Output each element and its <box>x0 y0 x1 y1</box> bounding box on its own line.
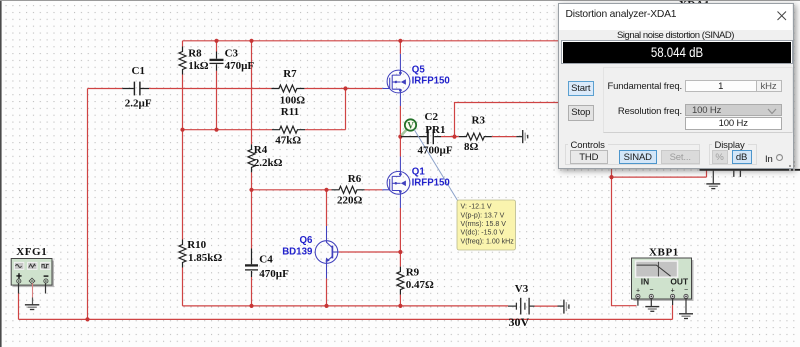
instrument XFG1 function generator <box>11 259 54 310</box>
svg-text:470µF: 470µF <box>225 60 255 72</box>
resistor R6 220ohm <box>332 186 365 193</box>
capacitor C4 470uF <box>245 249 258 278</box>
wire C2 right to R3 <box>441 136 459 138</box>
tooltip measurement box <box>457 200 516 250</box>
transistor Q5 IRFP150 (NMOS) <box>382 54 410 106</box>
svg-text:−: − <box>649 287 653 294</box>
svg-text:2.2µF: 2.2µF <box>125 98 152 110</box>
svg-text:8Ω: 8Ω <box>464 141 479 153</box>
svg-text:OUT: OUT <box>670 276 689 286</box>
svg-text:V3: V3 <box>515 283 529 295</box>
svg-text:C1: C1 <box>132 65 145 77</box>
wire R11 rail <box>183 129 346 131</box>
svg-text:V(dc): -15.0 V: V(dc): -15.0 V <box>461 230 505 237</box>
transistor Q6 BD139 (NPN) <box>315 226 339 279</box>
resistor R11 47kohm <box>272 126 305 133</box>
wire R6 row <box>252 189 383 191</box>
svg-text:R4: R4 <box>254 144 268 156</box>
svg-text:1kΩ: 1kΩ <box>188 60 209 72</box>
svg-text:IRFP150: IRFP150 <box>412 178 450 189</box>
svg-text:V(rms): 15.8 V: V(rms): 15.8 V <box>461 221 507 228</box>
svg-text:C2: C2 <box>425 111 439 123</box>
svg-text:0.47Ω: 0.47Ω <box>406 279 434 291</box>
wire left column x87 <box>87 89 89 320</box>
resistor R3 8ohm <box>459 133 492 140</box>
svg-text:2.2kΩ: 2.2kΩ <box>254 157 283 169</box>
wire R3 right to ground <box>492 136 517 138</box>
resistor R4 2.2kohm <box>248 144 255 172</box>
svg-text:IRFP150: IRFP150 <box>412 76 450 87</box>
svg-text:470µF: 470µF <box>259 268 289 280</box>
svg-text:Q1: Q1 <box>412 166 426 177</box>
svg-text:−: − <box>684 287 688 294</box>
svg-text:C3: C3 <box>225 47 239 59</box>
svg-text:47kΩ: 47kΩ <box>275 135 301 147</box>
transistor Q1 IRFP150 (NMOS) <box>382 157 410 209</box>
wire R8 column upper <box>182 41 184 240</box>
wire C2 node up and right to XDA1 <box>455 103 559 137</box>
instrument XDA1 icon fragment below dialog <box>700 170 800 189</box>
svg-text:V: -12.1 V: V: -12.1 V <box>461 204 492 211</box>
wire C2 node to Q1 drain <box>399 137 401 157</box>
XFG1 pins <box>19 283 46 293</box>
wire C1/R7 row <box>88 88 383 90</box>
resistor R8 1kohm <box>179 47 186 75</box>
svg-text:+: + <box>636 288 640 295</box>
svg-text:1.85kΩ: 1.85kΩ <box>188 252 222 264</box>
ground under XDA1 <box>712 171 714 184</box>
svg-text:V: V <box>407 121 414 131</box>
component labels (black serif) <box>125 47 530 329</box>
wire C4 column <box>251 190 253 306</box>
capacitor C3 470uF <box>210 52 224 71</box>
wire Q6 base to Q1 source column <box>339 251 400 253</box>
resistor R7 100ohm <box>271 85 304 92</box>
wire R4 column <box>251 41 253 190</box>
resistor R9 0.47ohm <box>397 267 404 295</box>
ground right of R3 (rotated) <box>516 130 527 143</box>
svg-text:R10: R10 <box>187 239 206 251</box>
wire rail A <box>183 305 509 307</box>
svg-text:+: + <box>671 288 675 295</box>
ground right of battery V3 (rotated) <box>558 300 569 314</box>
XBP1 pins <box>637 299 639 306</box>
wire Q6 collector <box>326 190 328 226</box>
svg-text:V(freq): 1.00 kHz: V(freq): 1.00 kHz <box>461 238 515 245</box>
svg-text:R7: R7 <box>283 68 297 80</box>
svg-text:Q6: Q6 <box>300 235 314 246</box>
svg-text:BD139: BD139 <box>282 247 313 258</box>
wire XDA1 branch right <box>612 170 707 177</box>
transistor labels (blue sans) <box>282 64 450 257</box>
svg-text:R8: R8 <box>188 47 202 59</box>
wire XBP1 OUT+ drop <box>672 305 674 319</box>
battery V3 30V <box>508 298 535 315</box>
wire top rail <box>183 40 559 42</box>
wire Q1 source column <box>399 208 401 306</box>
svg-text:XBP1: XBP1 <box>649 246 679 258</box>
probe PR1 (V) <box>401 119 416 135</box>
wire R11-R7 link <box>345 89 347 130</box>
wire R8 column lower (R10 to rail A) <box>182 268 184 306</box>
svg-text:XFG1: XFG1 <box>16 246 47 258</box>
svg-text:IN: IN <box>641 276 649 286</box>
workspace border left/top <box>0 0 2 347</box>
wire Q5 source to C2 node <box>399 106 401 137</box>
capacitor C2 4700uF <box>401 129 441 144</box>
wire XDA1 drop to XBP1 IN+ <box>612 169 637 306</box>
svg-text:R6: R6 <box>348 173 362 185</box>
wire XFG1 plus drop <box>18 294 20 320</box>
ground under XBP1 IN- <box>645 306 659 308</box>
wire C3 column <box>216 41 218 130</box>
svg-text:R9: R9 <box>406 266 420 278</box>
wire battery right to ground <box>535 305 558 307</box>
svg-text:V(p-p): 13.7 V: V(p-p): 13.7 V <box>461 212 505 219</box>
ground under XBP1 OUT- <box>679 313 693 315</box>
resistor R10 1.85kohm <box>179 240 186 268</box>
svg-text:30V: 30V <box>509 315 530 329</box>
svg-text:R3: R3 <box>472 114 486 126</box>
wire rail B bottom <box>19 318 673 320</box>
wire Q6 emitter to rail A <box>326 279 328 306</box>
svg-text:PR1: PR1 <box>425 124 445 136</box>
ground under XFG1 <box>32 298 34 305</box>
wire Q5 drain <box>399 41 401 54</box>
leader line to measurement tooltip <box>414 130 457 201</box>
instrument XBP1 bode plotter <box>632 258 694 319</box>
svg-text:220Ω: 220Ω <box>337 195 363 207</box>
svg-text:C4: C4 <box>259 253 273 265</box>
capacitor C1 2.2uF <box>122 82 149 96</box>
svg-text:R11: R11 <box>281 106 299 118</box>
svg-text:4700µF: 4700µF <box>418 145 453 157</box>
svg-text:100Ω: 100Ω <box>280 94 306 106</box>
svg-text:Q5: Q5 <box>412 64 426 75</box>
